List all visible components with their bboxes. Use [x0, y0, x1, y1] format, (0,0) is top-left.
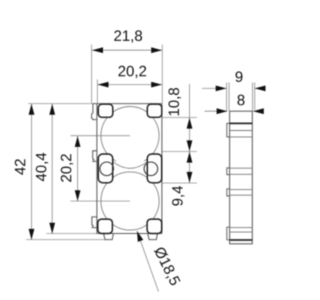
wire: side line [230, 167, 253, 169]
wire: centerline lower circle [71, 200, 131, 202]
wire: side line [230, 173, 253, 175]
circle lower cell [101, 172, 159, 230]
clip middle-left [98, 154, 112, 183]
side bump 1 [227, 123, 230, 136]
dimension line 21,8 [92, 49, 163, 51]
foot right [148, 234, 158, 240]
dimension line 40,4 (vertical) [51, 104, 53, 234]
label 9 [236, 71, 243, 82]
wire: side line [230, 130, 253, 132]
label 21,8 [114, 30, 142, 42]
wire: top edge [93, 103, 162, 105]
wire: tick middle right [163, 151, 198, 153]
wire: side line [230, 189, 253, 191]
hole in middle-left clip [100, 162, 114, 176]
wire: side line thick 2 [230, 239, 253, 241]
leader line for diameter 18,5 [137, 231, 159, 292]
label 20,2 top [118, 66, 146, 78]
part: front view outline [92, 104, 162, 240]
wire: extension line bottom 42 [26, 239, 105, 241]
side bump 2 [227, 168, 230, 175]
wire: side line thick 1 [230, 122, 253, 124]
side bump 3 [227, 189, 230, 196]
dimension line 42 (vertical) [31, 104, 33, 240]
tab 3 bottom left hook [92, 217, 97, 228]
circle upper cell (arc, bottom sector open) [101, 106, 159, 161]
wire: extension line 20,2 left [96, 80, 98, 104]
wire: side line [230, 231, 253, 233]
side view dimension 9 [202, 83, 264, 112]
wire: right edge [161, 104, 163, 234]
clip middle-right [147, 154, 161, 183]
wire: extension line bottom 40,4 [47, 233, 97, 235]
hole in middle-right clip [144, 162, 158, 176]
clip bottom-right [147, 219, 162, 233]
clip top-right [147, 104, 162, 117]
wire: tick middle clip bottom right [162, 182, 197, 184]
dimension line 20,2 top [97, 84, 162, 86]
tab 1 top left hook [92, 104, 97, 120]
side bump 4 [227, 227, 230, 240]
wire: side line [230, 227, 253, 229]
wire: left body edge [96, 104, 98, 234]
wire: tick top clip bottom right [163, 117, 198, 119]
label 40,4 [36, 153, 48, 181]
tab 2 middle left hook [93, 151, 97, 162]
clip bottom-left [98, 219, 113, 233]
label 8 [237, 95, 244, 106]
label 42 [15, 159, 25, 175]
wire: extension line 21,8 left [91, 45, 93, 104]
label diameter 18,5 [152, 246, 181, 287]
wire: side line [230, 194, 253, 196]
foot left [104, 234, 114, 240]
label 9,4 [172, 186, 184, 206]
dimension line 20,2 (vertical left) [77, 136, 79, 201]
side view dimension 8 [205, 110, 264, 112]
label 20,2 left [61, 154, 73, 182]
wire: extension line top of part (left) [28, 103, 97, 105]
wire: side line [230, 136, 253, 138]
dimension line 10,8 / 9,4 (vertical right) [189, 84, 191, 183]
side view body [230, 111, 253, 244]
wire: bottom edge [97, 233, 162, 235]
clip top-left [98, 104, 113, 117]
wire: centerline upper circle [71, 135, 131, 137]
waist arc under upper circle [113, 162, 147, 169]
label 10,8 [168, 88, 180, 115]
wire: extension line right shared [161, 45, 163, 104]
